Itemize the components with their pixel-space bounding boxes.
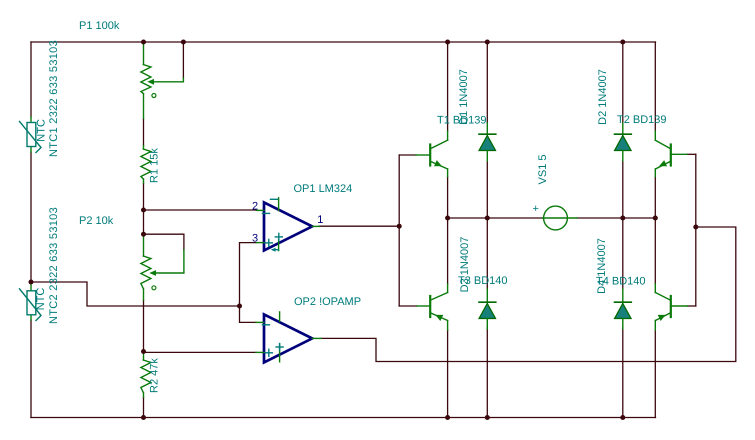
potentiometer P1 wiper arrowhead bbox=[147, 79, 154, 85]
diode D4 bbox=[615, 289, 632, 329]
node R2 bottom rail bbox=[141, 415, 146, 420]
potentiometer P2 wiper arrowhead bbox=[149, 270, 156, 276]
transistor T3 emitter arrow bbox=[435, 315, 443, 321]
node T1 emitter mid rail bbox=[445, 216, 450, 221]
wire D1 column bbox=[486, 42, 488, 218]
svg-text:T2 BD139: T2 BD139 bbox=[617, 114, 667, 126]
wire T4 collector to mid rail bbox=[654, 218, 656, 284]
wire OP2 inverting input branch bbox=[240, 306, 257, 322]
resistor R2 bbox=[141, 352, 151, 398]
svg-text:OP2 !OPAMP: OP2 !OPAMP bbox=[294, 296, 361, 308]
node D1 top bbox=[485, 40, 490, 45]
svg-text:D2 1N4007: D2 1N4007 bbox=[597, 69, 609, 125]
node D2 D4 mid rail bbox=[620, 216, 625, 221]
wire right base drive vertical bbox=[687, 154, 696, 306]
node OP2 output right bbox=[693, 225, 698, 230]
wire D2 column bbox=[622, 42, 624, 218]
wire OP2 output routing bbox=[321, 227, 736, 362]
node OP1 output bbox=[397, 224, 402, 229]
wire T2 collector to top rail bbox=[654, 42, 656, 131]
node D4 bottom rail bbox=[620, 415, 625, 420]
potentiometer P1 marker circle bbox=[152, 94, 156, 98]
transistor T1 emitter arrow bbox=[434, 160, 442, 166]
node T3 bottom rail bbox=[445, 415, 450, 420]
svg-text:R1 15k: R1 15k bbox=[149, 148, 161, 183]
svg-text:2: 2 bbox=[252, 201, 258, 213]
transistor T3 bbox=[417, 284, 448, 330]
node D2 top bbox=[620, 40, 625, 45]
wire T4 emitter to bottom rail bbox=[654, 330, 656, 418]
thermistor NTC1 bbox=[30, 117, 32, 152]
wire NTC2 tap to opamps bbox=[31, 282, 240, 306]
wire P2 wiper bbox=[144, 234, 184, 250]
transistor T2 emitter arrow bbox=[659, 160, 667, 166]
wire T3 collector to mid rail bbox=[447, 218, 449, 284]
wire P1 wiper bbox=[182, 42, 184, 78]
svg-text:NTC: NTC bbox=[35, 119, 47, 142]
resistor R1 bbox=[141, 146, 151, 184]
wire T1 collector to top rail bbox=[447, 42, 449, 131]
svg-text:D1 1N4007: D1 1N4007 bbox=[458, 69, 470, 125]
wire D4 column bbox=[622, 218, 624, 418]
wire T3 emitter to bottom rail bbox=[447, 330, 449, 418]
wire left column (NTC branch) bbox=[30, 42, 32, 418]
potentiometer P2 bbox=[141, 235, 184, 300]
node opamp input split bbox=[237, 304, 242, 309]
node D1 D3 mid rail bbox=[485, 216, 490, 221]
node T2 emitter mid rail bbox=[653, 216, 658, 221]
svg-text:NTC2 2322 633 53103: NTC2 2322 633 53103 bbox=[48, 207, 60, 324]
svg-text:D4 1N4007: D4 1N4007 bbox=[596, 238, 608, 294]
node divider OP2 plus bbox=[141, 349, 146, 354]
transistor T4 bbox=[655, 284, 687, 330]
transistor T1 bbox=[416, 131, 448, 177]
op-amp OP1 bbox=[257, 198, 320, 252]
wire T2 emitter to mid rail bbox=[654, 177, 656, 219]
wire mid rail right bbox=[577, 217, 655, 219]
svg-text:R2 47k: R2 47k bbox=[149, 358, 161, 393]
node P1 wiper top bbox=[181, 40, 186, 45]
node P1 top bbox=[141, 40, 146, 45]
potentiometer P1 bbox=[141, 43, 184, 119]
wire top rail bbox=[31, 41, 656, 43]
wire OP1 pin2 input bbox=[144, 209, 257, 211]
wire bottom rail bbox=[31, 417, 656, 419]
wire mid rail left bbox=[448, 217, 543, 219]
node NTC2 top bbox=[29, 280, 34, 285]
svg-text:P1 100k: P1 100k bbox=[79, 20, 120, 32]
thermistor NTC2 bbox=[30, 282, 32, 320]
svg-text:+: + bbox=[533, 203, 539, 215]
svg-text:1: 1 bbox=[317, 214, 323, 226]
transistor T2 bbox=[655, 131, 687, 177]
wire center divider column bbox=[143, 119, 145, 418]
wire OP2 non-inverting input bbox=[144, 351, 257, 353]
wire OP1 output to base drive bbox=[319, 225, 399, 227]
node divider pin2 bbox=[141, 208, 146, 213]
svg-text:P2 10k: P2 10k bbox=[79, 215, 114, 227]
svg-text:OP1 LM324: OP1 LM324 bbox=[294, 183, 353, 195]
diode D1 bbox=[479, 123, 496, 161]
node divider wiper P2 bbox=[141, 232, 146, 237]
potentiometer P2 marker circle bbox=[152, 286, 156, 290]
diode D3 bbox=[479, 289, 496, 329]
voltage source VS1 bbox=[543, 206, 578, 230]
svg-text:VS1 5: VS1 5 bbox=[537, 155, 549, 185]
svg-text:NTC1 2322 633 53103: NTC1 2322 633 53103 bbox=[48, 40, 60, 157]
svg-text:NTC: NTC bbox=[35, 288, 47, 311]
wire left base drive vertical bbox=[399, 155, 417, 306]
wire D3 column bbox=[486, 218, 488, 418]
svg-text:3: 3 bbox=[252, 233, 258, 245]
transistor T4 emitter arrow bbox=[658, 315, 666, 321]
wire T1 emitter to mid rail bbox=[447, 177, 449, 219]
wire OP1 pin3 branch bbox=[240, 243, 257, 306]
op-amp OP2 bbox=[256, 312, 321, 363]
node junction dots bbox=[29, 40, 699, 421]
node T1 collector top bbox=[445, 40, 450, 45]
svg-text:D3 1N4007: D3 1N4007 bbox=[459, 237, 471, 293]
diode D2 bbox=[615, 123, 632, 161]
node D3 bottom rail bbox=[485, 415, 490, 420]
